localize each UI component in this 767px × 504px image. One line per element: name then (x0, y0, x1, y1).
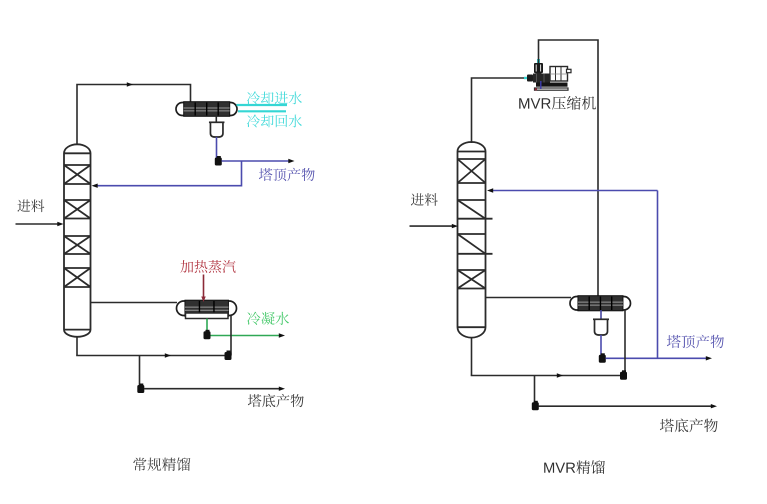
label condensate water (247, 312, 289, 325)
bottoms takeoff drop (139, 356, 141, 387)
reboiler channel box (186, 313, 229, 319)
valve V4 on bottoms product line (137, 384, 144, 394)
overhead product line (blue) (222, 159, 295, 163)
condenser E1 (176, 102, 237, 117)
caption conventional distillation (133, 458, 190, 472)
cooling water return line (cyan) (238, 110, 286, 112)
compressor discharge pipe to E3 (539, 40, 599, 297)
E3 outlet nozzle (600, 310, 602, 319)
valve V5 on overhead product (right) (599, 353, 606, 363)
valve V2 on condensate line (204, 330, 211, 340)
valve V7 on bottoms product line (right) (532, 401, 539, 411)
overhead product line right (blue) (606, 356, 713, 360)
bottoms product line (right) (539, 404, 718, 408)
valve V6 at E3 return (620, 370, 627, 380)
MVR compressor K1 (527, 59, 571, 90)
feed line into T1 (16, 222, 64, 226)
condenser outlet nozzle (215, 116, 217, 123)
valve V1 on overhead product line (215, 156, 222, 166)
reboiler return downcomer (230, 316, 232, 356)
pipe T1 to reboiler E2 (91, 302, 178, 304)
bottoms header T2 (471, 338, 625, 378)
distillation column T2 (MVR) (458, 142, 493, 338)
label cooling water return (247, 115, 302, 128)
label heating steam (180, 260, 235, 273)
label MVR compressor (519, 96, 596, 110)
condensate drain (green) (206, 319, 208, 333)
label bottoms product (right) (660, 419, 718, 433)
cooling water inlet line (cyan) (237, 104, 288, 106)
caption MVR distillation (544, 460, 605, 474)
compressor suction cyan segment (524, 77, 531, 79)
condensate line (green) (211, 333, 286, 337)
heating steam line (red) (201, 275, 206, 303)
bottoms header from T1 (76, 337, 231, 358)
label bottoms product (left) (248, 394, 304, 407)
reflux return line T2 (blue) (487, 188, 658, 192)
feed line into T2 (410, 224, 459, 228)
overhead vapor pipe T2 to compressor (472, 78, 525, 143)
drum D2 (593, 319, 609, 335)
label feed (left) (17, 200, 44, 213)
pipe T2 to exchanger E3 (486, 297, 571, 299)
label cooling water in (247, 91, 302, 104)
bottoms product line (144, 387, 285, 391)
valve V3 at reboiler return (225, 351, 232, 361)
bottoms takeoff drop (right) (534, 376, 536, 404)
E3 condensate downcomer (624, 310, 626, 372)
distillation column T1 (conventional) (64, 144, 91, 337)
label overhead product (left) (259, 168, 315, 181)
blue pipe D2 to valve (600, 335, 602, 355)
recycle downcomer (blue) (657, 191, 659, 359)
overhead vapor pipe from T1 to condenser (77, 82, 191, 145)
label feed (right) (411, 193, 438, 206)
blue pipe drum to valve (216, 137, 218, 158)
reflux drum D1 (209, 122, 225, 137)
reboiler E2 (177, 300, 237, 316)
heat exchanger E3 (570, 296, 631, 311)
label overhead product (right) (667, 335, 724, 349)
reflux return line (blue) (92, 161, 242, 188)
